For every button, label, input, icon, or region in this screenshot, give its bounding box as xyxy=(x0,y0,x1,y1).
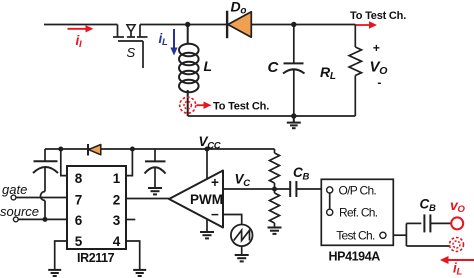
svg-text:−: − xyxy=(211,207,219,222)
ground pin5 xyxy=(48,270,61,276)
resistor divider lower xyxy=(270,189,280,228)
svg-text:VCC: VCC xyxy=(199,134,221,152)
wire input left xyxy=(44,24,118,26)
svg-text:Test Ch.: Test Ch. xyxy=(336,229,375,243)
resistor divider upper xyxy=(270,149,280,189)
svg-text:6: 6 xyxy=(75,213,83,228)
svg-text:CB: CB xyxy=(420,197,436,215)
wire pin3 stub xyxy=(126,219,135,221)
svg-text:iL: iL xyxy=(159,31,168,48)
capacitor CB (coupling to analyzer) xyxy=(290,181,296,197)
transistor S (MOSFET switch) xyxy=(113,25,148,69)
svg-text:8: 8 xyxy=(75,171,83,186)
wire oscillator to ground xyxy=(241,246,243,255)
svg-text:-: - xyxy=(377,76,381,90)
node A junction dot xyxy=(185,22,190,27)
ground oscillator xyxy=(235,255,249,261)
svg-text:iI: iI xyxy=(76,33,82,50)
svg-text:5: 5 xyxy=(75,234,83,249)
svg-text:VC: VC xyxy=(235,172,251,190)
svg-text:+: + xyxy=(211,175,219,190)
junction dot source/cap xyxy=(43,217,48,222)
wire Vc line xyxy=(223,188,290,190)
injection point marker (dashed circles) at inductor bottom xyxy=(180,97,196,113)
svg-text:1: 1 xyxy=(113,171,121,186)
wire diode to output corner xyxy=(251,24,355,26)
svg-text:O/P Ch.: O/P Ch. xyxy=(339,183,377,197)
svg-text:RL: RL xyxy=(320,64,336,82)
svg-text:gate: gate xyxy=(2,182,27,197)
wire CB to analyzer xyxy=(296,188,321,190)
current arrow i_L (blue) xyxy=(170,29,177,56)
wire hop over gate line xyxy=(41,192,46,201)
wire Test Ch. out xyxy=(393,234,406,236)
svg-text:VO: VO xyxy=(370,59,388,78)
svg-text:+: + xyxy=(373,41,380,55)
ground pin4 xyxy=(133,270,146,276)
instrument HP4194A box xyxy=(321,179,393,245)
junction dot rail Vcc xyxy=(205,147,210,152)
junction dot rail pin1 xyxy=(130,147,135,152)
wire O/P to Ref link xyxy=(329,193,331,210)
svg-text:HP4194A: HP4194A xyxy=(329,250,381,264)
resistor RL xyxy=(349,25,361,117)
wire bottom rail (top stage) xyxy=(188,115,356,117)
svg-text:To Test Ch.: To Test Ch. xyxy=(213,101,269,113)
svg-text:source: source xyxy=(0,204,39,219)
terminal source xyxy=(13,217,18,222)
injection point marker iL (dashed circles) xyxy=(450,238,464,252)
wire CB to vo terminal xyxy=(430,222,451,224)
wire pin5 to ground xyxy=(55,241,67,270)
svg-text:C: C xyxy=(268,59,280,76)
terminal Ref. Ch. xyxy=(327,209,333,215)
svg-text:To Test Ch.: To Test Ch. xyxy=(350,10,406,22)
output node junction dot xyxy=(291,22,296,27)
wire minus input to oscillator xyxy=(223,215,242,225)
ground divider xyxy=(268,228,282,234)
op-amp U1 IR2117 body xyxy=(67,166,126,249)
wire to CB output xyxy=(406,222,421,224)
svg-text:L: L xyxy=(204,58,212,74)
ground PWM xyxy=(200,232,214,238)
ground (top stage) xyxy=(287,116,301,128)
terminal O/P Ch. xyxy=(327,187,333,193)
capacitor CB (output sense) xyxy=(424,214,430,232)
current arrow i_I xyxy=(68,25,94,32)
sawtooth oscillator xyxy=(231,225,253,247)
svg-text:3: 3 xyxy=(113,213,121,228)
wire source to pin6 xyxy=(18,218,67,220)
capacitor C xyxy=(283,25,305,117)
svg-text:4: 4 xyxy=(113,234,121,249)
junction dot Vc divider xyxy=(272,187,277,192)
wire cap to source junction xyxy=(44,201,46,220)
wire to iL injection xyxy=(406,245,450,247)
wire pin1 stub xyxy=(126,149,132,176)
svg-text:IR2117: IR2117 xyxy=(77,251,115,265)
svg-text:PWM: PWM xyxy=(190,192,223,207)
wire Vcc rail xyxy=(45,148,275,150)
svg-text:iL: iL xyxy=(453,261,462,278)
wire gate to pin7 xyxy=(16,197,67,199)
inductor L xyxy=(179,25,199,117)
junction dot bottom rail xyxy=(291,113,296,118)
arrow to test channel (output) xyxy=(355,21,377,28)
terminal Test Ch. xyxy=(380,232,386,238)
wire tee vertical xyxy=(405,223,407,246)
wire PWM bottom to ground xyxy=(206,219,208,232)
svg-text:vO: vO xyxy=(450,197,466,215)
svg-text:CB: CB xyxy=(293,165,309,183)
capacitor Vcc decoupling xyxy=(145,149,166,188)
wire pin4 to ground xyxy=(126,241,140,270)
svg-text:Ref. Ch.: Ref. Ch. xyxy=(339,206,378,220)
terminal gate xyxy=(11,195,16,200)
wire switch to node A xyxy=(140,24,227,26)
svg-text:7: 7 xyxy=(75,192,83,207)
op-amp PWM comparator xyxy=(169,171,223,228)
arrow to test channel (inductor) xyxy=(197,102,212,109)
diode Do xyxy=(227,11,251,39)
terminal vo (red) xyxy=(451,217,463,229)
svg-text:Do: Do xyxy=(231,0,247,17)
junction dot rail pin8 xyxy=(58,147,63,152)
capacitor bootstrap (left) xyxy=(33,149,58,192)
ground decoupling cap xyxy=(148,188,162,194)
wire pin2 to PWM xyxy=(126,198,169,200)
svg-text:S: S xyxy=(127,45,136,60)
svg-text:2: 2 xyxy=(113,192,121,207)
wire Vcc to PWM xyxy=(206,149,208,179)
current arrow iL return (red) xyxy=(440,256,474,264)
wire pin8 stub xyxy=(61,149,67,176)
diode bootstrap xyxy=(87,144,89,156)
